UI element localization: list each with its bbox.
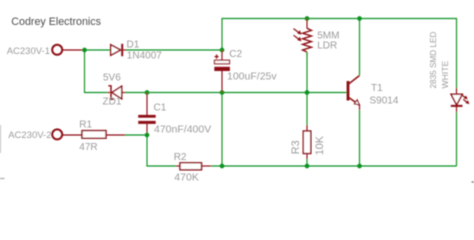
resistor R1 <box>82 131 126 139</box>
junction node at LDR bottom / R3 top / base <box>305 90 310 95</box>
wire: collector to top rail <box>359 19 361 76</box>
svg-text:D1: D1 <box>127 39 140 50</box>
junction node at C1 top <box>145 90 150 95</box>
junction node at LDR top <box>305 16 310 21</box>
svg-text:R1: R1 <box>79 120 92 131</box>
svg-text:47R: 47R <box>79 142 97 153</box>
capacitor C2 <box>214 50 230 93</box>
svg-text:ZD1: ZD1 <box>103 97 122 108</box>
svg-text:AC230V-1: AC230V-1 <box>7 46 50 57</box>
wire: LDR bottom to base junction <box>306 52 308 93</box>
connector pin AC230V-2 <box>52 129 82 139</box>
wire: top rail from C2 branch to LED <box>222 19 457 89</box>
svg-text:100uF/25v: 100uF/25v <box>227 70 277 82</box>
svg-text:WHITE: WHITE <box>440 61 450 89</box>
svg-text:10K: 10K <box>314 135 326 155</box>
svg-text:T1: T1 <box>371 83 383 94</box>
svg-text:R3: R3 <box>290 140 302 154</box>
junction node at R2 / C2 branch <box>220 164 225 169</box>
transistor T1 <box>348 76 360 111</box>
wire: ZD1 cathode rail to transistor base <box>125 92 347 94</box>
wire: C2 bottom to bottom rail <box>221 93 223 167</box>
junction node at C1 bottom / R1 <box>145 133 150 138</box>
svg-text:AC230V-2: AC230V-2 <box>8 130 51 141</box>
capacitor C1 <box>138 93 156 134</box>
wire: junction down to bottom rail <box>147 135 176 166</box>
svg-text:C1: C1 <box>154 103 167 114</box>
svg-text:LDR: LDR <box>317 40 337 51</box>
wire: bottom rail <box>211 165 457 167</box>
wire: R3 to bottom rail <box>306 159 308 166</box>
wire: AC230V-1 to D1 anode <box>84 49 111 51</box>
wire: base junction to R3 <box>306 93 308 126</box>
svg-text:R2: R2 <box>174 152 187 163</box>
photoresistor LDR <box>294 19 312 57</box>
svg-text:Codrey Electronics: Codrey Electronics <box>11 16 101 28</box>
svg-text:S9014: S9014 <box>370 96 399 107</box>
svg-text:1N4007: 1N4007 <box>127 51 162 62</box>
svg-text:C2: C2 <box>229 49 242 60</box>
diode D1 <box>111 44 127 56</box>
wire: emitter to bottom rail <box>359 110 361 166</box>
junction node at emitter bottom <box>357 164 362 169</box>
svg-text:470K: 470K <box>174 172 199 184</box>
wire: LED to bottom rail <box>456 112 458 166</box>
resistor R3 <box>303 125 311 159</box>
resistor R2 <box>176 163 211 170</box>
svg-text:5V6: 5V6 <box>103 73 121 84</box>
wire: R1 to C1 bottom junction <box>125 134 147 136</box>
junction node at R3 bottom <box>305 164 310 169</box>
zener diode ZD1 <box>108 86 127 99</box>
junction node at C2 bottom <box>220 90 225 95</box>
junction node at collector top <box>357 16 362 21</box>
junction node at AC230V-1 branch <box>82 48 87 53</box>
connector pin AC230V-1 <box>52 45 84 55</box>
wire: D1 cathode to C2 top junction <box>126 49 222 51</box>
svg-text:2835 SMD LED: 2835 SMD LED <box>429 32 438 89</box>
wire: junction down to ZD1 row <box>85 50 108 93</box>
svg-text:470nF/400V: 470nF/400V <box>154 124 211 136</box>
junction node at D1 cathode / C2 top <box>220 48 225 53</box>
LED D2 2835 SMD <box>451 88 470 112</box>
